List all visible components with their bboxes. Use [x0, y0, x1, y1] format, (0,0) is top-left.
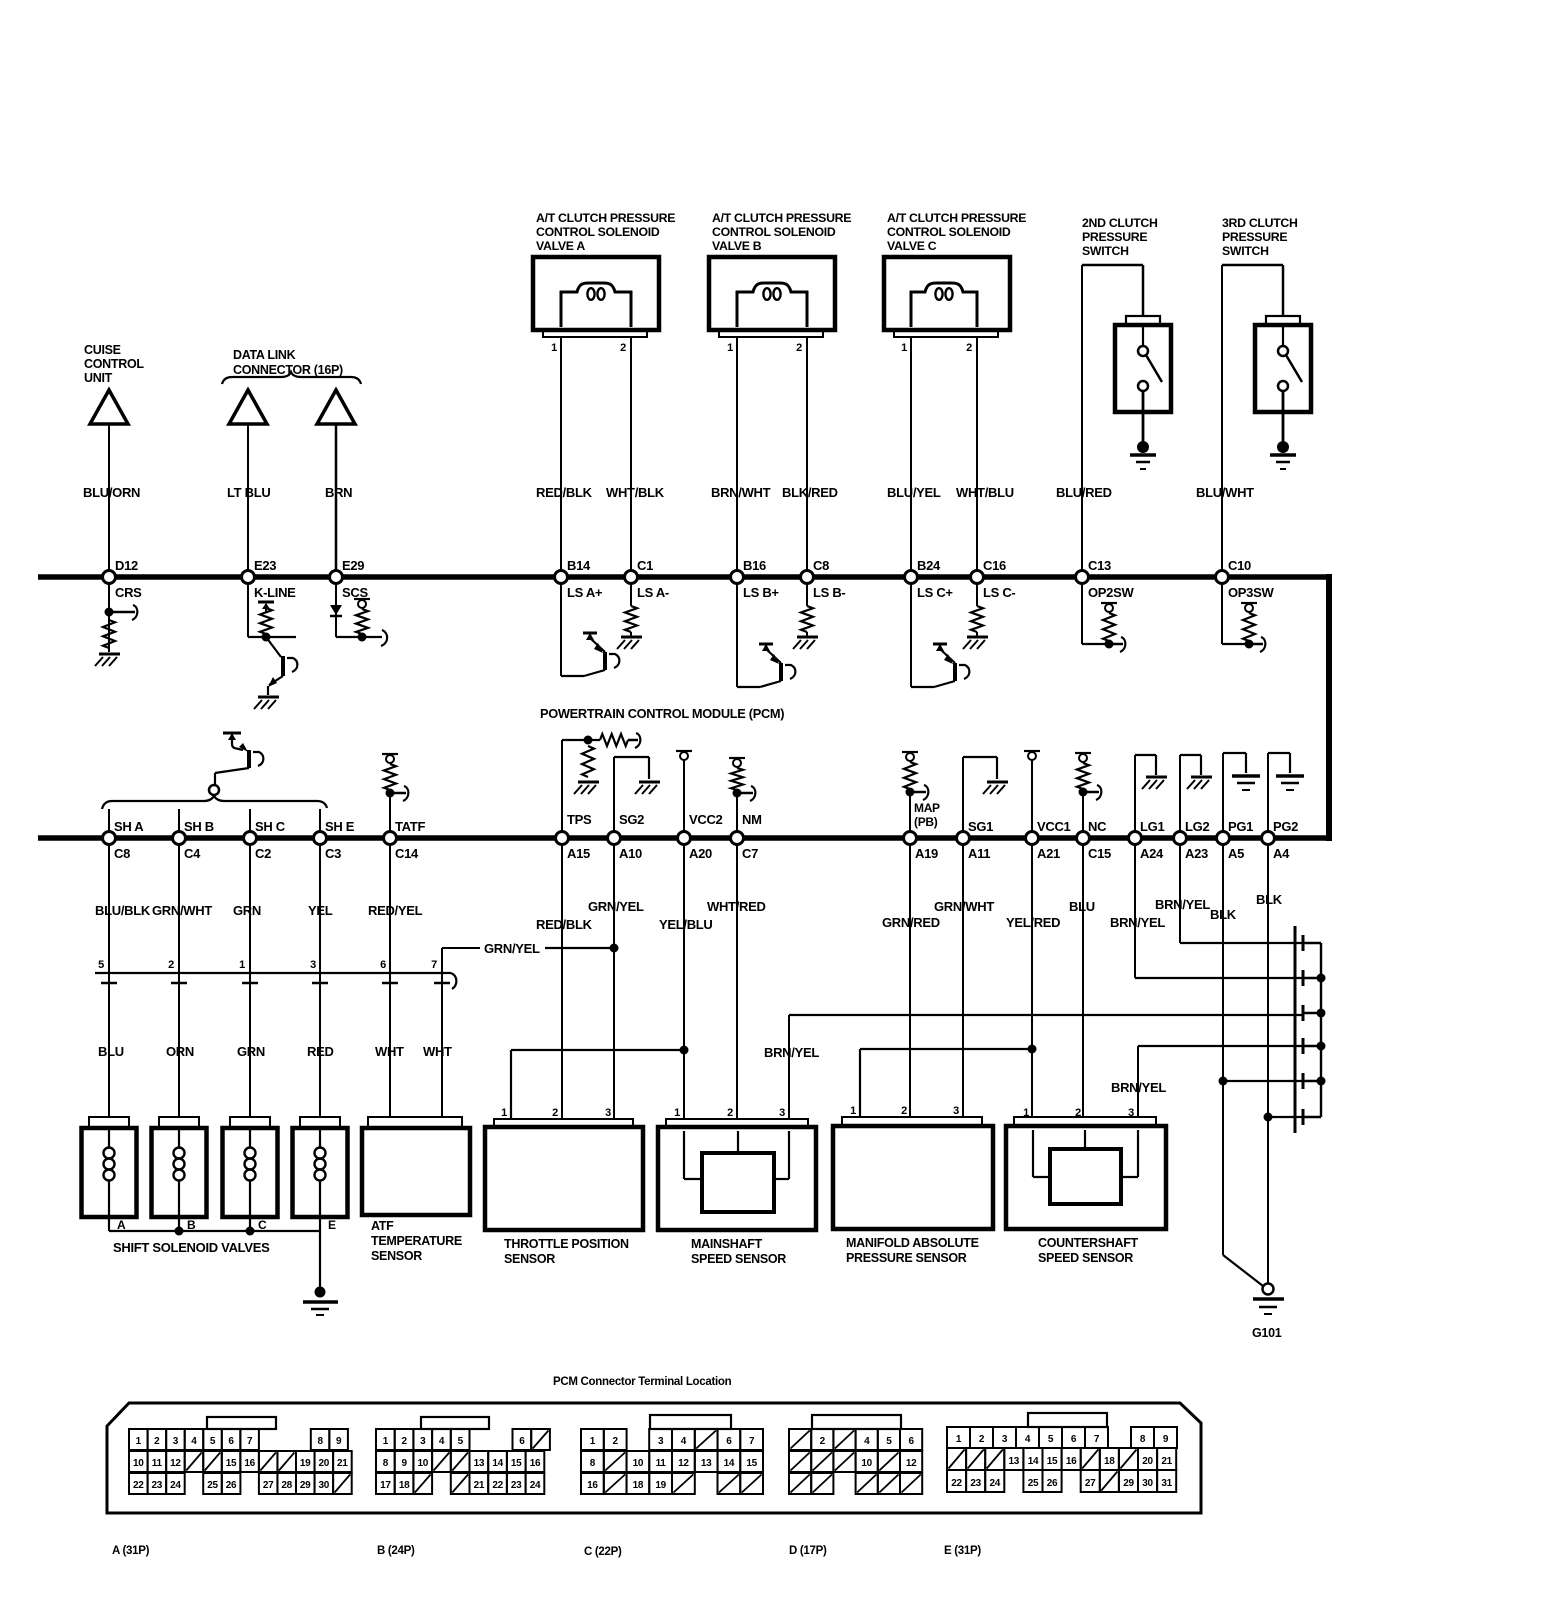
svg-text:4: 4	[864, 1436, 870, 1447]
node SH A (C8) on bus 2 with stub	[103, 809, 145, 861]
node TPS (A15) on bus 2	[556, 812, 593, 861]
svg-text:SH C: SH C	[255, 819, 286, 834]
svg-text:C (22P): C (22P)	[584, 1546, 622, 1558]
label ATF TEMPERATURE SENSOR	[371, 1219, 462, 1263]
pin number 1	[239, 959, 245, 971]
wire BRN DLC to E29	[335, 424, 338, 577]
svg-text:1: 1	[551, 342, 557, 354]
transistor Q-lsa driver	[561, 633, 619, 676]
svg-text:2: 2	[552, 1107, 558, 1119]
svg-text:ATF: ATF	[371, 1219, 394, 1233]
wire WHT/BLU valve C pin2 to C16	[976, 337, 978, 577]
svg-text:7: 7	[1094, 1434, 1100, 1445]
svg-text:BRN/YEL: BRN/YEL	[1155, 897, 1210, 912]
svg-text:SHIFT SOLENOID VALVES: SHIFT SOLENOID VALVES	[113, 1240, 270, 1255]
node E29 (SCS) on PCM bus 1	[330, 558, 369, 600]
svg-text:TPS: TPS	[567, 812, 592, 827]
svg-text:3: 3	[779, 1107, 785, 1119]
svg-text:CONTROL SOLENOID: CONTROL SOLENOID	[536, 225, 660, 239]
svg-text:THROTTLE POSITION: THROTTLE POSITION	[504, 1237, 629, 1251]
wire BRN/YEL mainshaft pin3 to joint connector	[789, 1015, 1302, 1119]
svg-text:6: 6	[380, 959, 386, 971]
node VCC2 (A20) on bus 2	[678, 812, 723, 861]
label D (17P)	[789, 1545, 827, 1557]
svg-text:8: 8	[590, 1458, 596, 1469]
node SG1 (A11) on bus 2	[957, 819, 994, 861]
svg-text:1: 1	[727, 342, 733, 354]
svg-text:A19: A19	[915, 846, 938, 861]
svg-text:GRN/WHT: GRN/WHT	[152, 903, 212, 918]
label BLU/BLK	[95, 903, 151, 918]
wire BLK A5 to joint connector and G101	[1219, 844, 1303, 1286]
LS A+ output wire	[560, 584, 562, 676]
cruise control unit label	[84, 343, 144, 385]
svg-text:14: 14	[492, 1458, 503, 1469]
svg-text:A (31P): A (31P)	[112, 1545, 150, 1557]
wire GRN/RED A19 to MAP pin2	[909, 844, 911, 1117]
label MAINSHAFT SPEED SENSOR	[691, 1237, 786, 1266]
svg-text:SCS: SCS	[342, 585, 368, 600]
svg-text:NM: NM	[742, 812, 762, 827]
svg-text:22: 22	[951, 1478, 962, 1489]
svg-text:A/T CLUTCH PRESSURE: A/T CLUTCH PRESSURE	[712, 211, 851, 225]
svg-text:3: 3	[1002, 1434, 1008, 1445]
ground (rake) LG2	[1187, 777, 1212, 789]
wire BLU/RED 2nd clutch switch to C13	[1082, 265, 1143, 577]
LS C+ output wire	[910, 584, 912, 687]
A/T clutch pressure control solenoid valve C label	[887, 211, 1026, 253]
resistor R-kline pull-up	[260, 608, 272, 634]
wire RED/BLK valve A pin1 to B14	[560, 337, 562, 577]
svg-text:LS A-: LS A-	[637, 585, 669, 600]
node SH C (C2) on bus 2 with stub	[244, 809, 286, 861]
svg-text:LS C+: LS C+	[917, 585, 953, 600]
svg-text:1: 1	[239, 959, 245, 971]
svg-text:2: 2	[154, 1436, 160, 1447]
resistor R-tps series	[588, 733, 640, 748]
node LG2 (A23) on bus 2	[1174, 819, 1210, 861]
countershaft speed sensor box	[1006, 1107, 1166, 1229]
svg-text:5: 5	[1048, 1434, 1054, 1445]
svg-text:YEL: YEL	[308, 903, 333, 918]
svg-text:30: 30	[319, 1480, 330, 1491]
PG2 wire to ground	[1268, 753, 1290, 838]
svg-text:E (31P): E (31P)	[944, 1545, 981, 1557]
node SH E (C3) on bus 2 with stub	[314, 809, 355, 861]
transistor Q-shift (shift solenoid driver)	[215, 733, 263, 785]
resistor R-op3 pull-up	[1241, 603, 1257, 641]
svg-text:5: 5	[886, 1436, 892, 1447]
svg-text:2: 2	[901, 1105, 907, 1117]
label GRN/YEL (2)	[588, 899, 644, 914]
svg-text:COUNTERSHAFT: COUNTERSHAFT	[1038, 1236, 1139, 1250]
svg-text:8: 8	[1140, 1434, 1146, 1445]
hook OP2SW	[1109, 637, 1125, 652]
label WHT/BLK	[606, 485, 665, 500]
resistor R-crs	[103, 620, 115, 648]
resistor R-lsc	[971, 606, 983, 632]
wire YEL/BLU A20 to TPS pin1 and mainshaft pin1	[511, 844, 689, 1119]
ground (rake) SG1	[983, 782, 1008, 794]
svg-text:BLK: BLK	[1256, 892, 1283, 907]
svg-text:15: 15	[1047, 1456, 1058, 1467]
node LG1 (A24) on bus 2	[1129, 819, 1165, 861]
label MANIFOLD ABSOLUTE PRESSURE SENSOR	[846, 1236, 979, 1265]
svg-text:VALVE A: VALVE A	[536, 239, 585, 253]
svg-text:POWERTRAIN CONTROL MODULE (PCM: POWERTRAIN CONTROL MODULE (PCM)	[540, 706, 784, 721]
pin number 3	[310, 959, 316, 971]
shift solenoid valve B	[152, 1117, 207, 1232]
pin number 5	[98, 959, 104, 971]
svg-text:CRS: CRS	[115, 585, 142, 600]
LS B- wire	[806, 584, 808, 637]
label BRN	[325, 485, 352, 500]
pin number 7	[431, 959, 437, 971]
svg-text:VCC1: VCC1	[1037, 819, 1071, 834]
svg-text:4: 4	[439, 1436, 445, 1447]
svg-text:MAINSHAFT: MAINSHAFT	[691, 1237, 763, 1251]
ground (earth) PG1	[1232, 776, 1260, 790]
svg-text:C7: C7	[742, 846, 758, 861]
svg-text:11: 11	[152, 1458, 163, 1469]
svg-text:GRN/YEL: GRN/YEL	[484, 941, 540, 956]
svg-text:LT BLU: LT BLU	[227, 485, 270, 500]
svg-text:BLU/BLK: BLU/BLK	[95, 903, 151, 918]
svg-text:18: 18	[633, 1480, 644, 1491]
node SH B (C4) on bus 2 with stub	[173, 809, 214, 861]
svg-text:TATF: TATF	[395, 819, 425, 834]
svg-text:1: 1	[136, 1436, 142, 1447]
svg-text:A/T CLUTCH PRESSURE: A/T CLUTCH PRESSURE	[887, 211, 1026, 225]
wire BRN/YEL A24 to joint connector	[1135, 844, 1302, 978]
resistor R-nc pull-up	[1075, 753, 1091, 797]
svg-text:C8: C8	[114, 846, 130, 861]
svg-text:10: 10	[633, 1458, 644, 1469]
node C13 (OP2SW) on PCM bus 1	[1076, 558, 1135, 600]
svg-text:23: 23	[152, 1480, 163, 1491]
svg-text:A/T CLUTCH PRESSURE: A/T CLUTCH PRESSURE	[536, 211, 675, 225]
wire BLU/ORN cruise control to D12	[108, 424, 110, 577]
svg-text:GRN: GRN	[233, 903, 261, 918]
svg-text:2: 2	[979, 1434, 985, 1445]
svg-text:K-LINE: K-LINE	[254, 585, 296, 600]
wire WHT/BLK valve A pin2 to C1	[630, 337, 632, 577]
node E23 (K-LINE) on PCM bus 1	[242, 558, 297, 600]
svg-text:B (24P): B (24P)	[377, 1545, 415, 1557]
svg-text:5: 5	[458, 1436, 464, 1447]
wire YEL/RED A21 to countershaft pin1 and MAP pin1	[860, 844, 1037, 1117]
svg-text:3: 3	[310, 959, 316, 971]
svg-text:11: 11	[656, 1458, 667, 1469]
wire GRN/YEL A10 to TPS pin3	[613, 844, 615, 1119]
hook OP3SW	[1249, 637, 1265, 652]
wire BLU C15 to countershaft pin2	[1082, 844, 1084, 1117]
svg-text:3: 3	[1128, 1107, 1134, 1119]
ATF temperature sensor box	[362, 1117, 470, 1215]
svg-text:6: 6	[519, 1436, 525, 1447]
label BLK/RED	[782, 485, 838, 500]
svg-text:28: 28	[281, 1480, 292, 1491]
label BRN/YEL (A23)	[1155, 897, 1210, 912]
SG1 wire to ground	[963, 757, 997, 838]
wire PCM boundary bus 1 (upper pin row of PCM)	[38, 574, 1329, 580]
svg-text:9: 9	[336, 1436, 342, 1447]
shift solenoid valve C	[223, 1117, 278, 1232]
label SHIFT SOLENOID VALVES	[113, 1240, 270, 1255]
svg-text:OP2SW: OP2SW	[1088, 585, 1134, 600]
brace over SH A..SH E	[102, 796, 327, 809]
PCM connector panel outline	[107, 1403, 1201, 1513]
svg-text:2ND CLUTCH: 2ND CLUTCH	[1082, 216, 1158, 230]
svg-text:WHT: WHT	[375, 1044, 404, 1059]
TATF wire above C14	[389, 796, 391, 838]
solenoid valve C body	[884, 257, 1010, 354]
ground (rake) LS B-	[793, 637, 818, 649]
svg-text:7: 7	[247, 1436, 253, 1447]
svg-text:SENSOR: SENSOR	[504, 1252, 555, 1266]
node NC (C15) on bus 2	[1077, 819, 1112, 861]
SG2 wire to ground	[614, 757, 649, 838]
svg-text:PRESSURE: PRESSURE	[1222, 230, 1287, 244]
svg-text:A11: A11	[968, 846, 990, 861]
svg-text:OP3SW: OP3SW	[1228, 585, 1274, 600]
node NM (C7) on bus 2	[731, 812, 762, 861]
svg-text:LS C-: LS C-	[983, 585, 1015, 600]
svg-text:BLU/ORN: BLU/ORN	[83, 485, 140, 500]
manifold absolute pressure sensor box	[833, 1105, 993, 1229]
2nd clutch pressure switch label	[1082, 216, 1158, 258]
data link connector label	[233, 348, 343, 377]
svg-text:21: 21	[1161, 1456, 1172, 1467]
label BLK (A4)	[1256, 892, 1283, 907]
LG2 wire to ground	[1180, 755, 1201, 838]
svg-text:29: 29	[1123, 1478, 1134, 1489]
svg-text:21: 21	[337, 1458, 348, 1469]
svg-text:1: 1	[383, 1436, 389, 1447]
K-LINE wire below E23	[248, 584, 296, 642]
svg-text:2: 2	[168, 959, 174, 971]
svg-text:6: 6	[726, 1436, 732, 1447]
wire LT BLU DLC to E23	[247, 424, 249, 577]
svg-text:6: 6	[908, 1436, 914, 1447]
svg-text:RED: RED	[307, 1044, 334, 1059]
svg-text:3: 3	[173, 1436, 179, 1447]
ground (rake) LS A-	[617, 637, 642, 649]
svg-text:C1: C1	[637, 558, 653, 573]
svg-text:12: 12	[170, 1458, 181, 1469]
label E (31P)	[944, 1545, 981, 1557]
svg-text:DATA LINK: DATA LINK	[233, 348, 296, 362]
svg-text:12: 12	[906, 1458, 917, 1469]
ground (earth) PG2	[1276, 776, 1304, 790]
svg-text:A15: A15	[567, 846, 590, 861]
svg-text:E23: E23	[254, 558, 276, 573]
label WHT (2)	[423, 1044, 452, 1059]
ground (rake) LS C-	[963, 637, 988, 649]
wire GRN/WHT A11 to MAP pin3	[962, 844, 964, 1117]
node B24 (LS C+) on PCM bus 1	[905, 558, 954, 600]
svg-text:23: 23	[511, 1480, 522, 1491]
3rd clutch pressure switch	[1255, 316, 1311, 469]
ground G101	[1253, 1284, 1284, 1315]
svg-text:WHT: WHT	[423, 1044, 452, 1059]
svg-text:4: 4	[681, 1436, 687, 1447]
svg-text:LS B-: LS B-	[813, 585, 845, 600]
wire BLU/YEL valve C pin1 to B24	[910, 337, 912, 577]
resistor R-nm pull-up	[729, 758, 745, 798]
wire PCM boundary right edge	[1326, 574, 1332, 841]
svg-text:TEMPERATURE: TEMPERATURE	[371, 1234, 462, 1248]
svg-text:30: 30	[1142, 1478, 1153, 1489]
svg-text:WHT/BLK: WHT/BLK	[606, 485, 665, 500]
LG1 wire to ground	[1135, 755, 1156, 838]
2nd clutch pressure switch	[1115, 316, 1171, 469]
svg-text:7: 7	[749, 1436, 755, 1447]
wire GRN C2 to solenoid C	[249, 844, 251, 1117]
svg-text:A24: A24	[1140, 846, 1164, 861]
svg-text:9: 9	[1163, 1434, 1169, 1445]
throttle position sensor box	[485, 1107, 643, 1230]
svg-text:GRN: GRN	[237, 1044, 265, 1059]
node C1 (LS A-) on PCM bus 1	[625, 558, 669, 600]
svg-text:2: 2	[401, 1436, 407, 1447]
svg-text:SH B: SH B	[184, 819, 214, 834]
transistor Q-lsb driver	[737, 644, 795, 687]
resistor R-lsb	[801, 606, 813, 632]
label BRN/YEL (countershaft)	[1111, 1080, 1166, 1095]
svg-text:14: 14	[724, 1458, 735, 1469]
svg-text:2: 2	[966, 342, 972, 354]
wire PCM boundary bus 2 (lower pin row of PCM)	[38, 835, 1329, 841]
label GRN	[233, 903, 261, 918]
svg-text:18: 18	[1104, 1456, 1115, 1467]
svg-text:PG2: PG2	[1273, 819, 1298, 834]
wire YEL C3 to solenoid E	[319, 844, 321, 1117]
svg-text:CUISE: CUISE	[84, 343, 121, 357]
label RED/YEL	[368, 903, 423, 918]
svg-text:BRN/YEL: BRN/YEL	[764, 1045, 819, 1060]
svg-text:SPEED SENSOR: SPEED SENSOR	[1038, 1251, 1133, 1265]
brace data link connector	[222, 372, 361, 384]
svg-text:10: 10	[418, 1458, 429, 1469]
label BLU/YEL	[887, 485, 941, 500]
svg-text:CONTROL SOLENOID: CONTROL SOLENOID	[712, 225, 836, 239]
PCM connector D terminal grid	[789, 1415, 922, 1494]
wire WHT/RED C7 to mainshaft pin2	[736, 844, 738, 1119]
svg-text:8: 8	[383, 1458, 389, 1469]
transistor Q-kline	[266, 637, 297, 695]
node VCC1 (A21) on bus 2	[1026, 819, 1071, 861]
label GRN/YEL with branch line	[442, 941, 619, 956]
svg-text:1: 1	[590, 1436, 596, 1447]
svg-text:16: 16	[244, 1458, 255, 1469]
svg-text:21: 21	[474, 1480, 485, 1491]
svg-text:3: 3	[605, 1107, 611, 1119]
svg-text:LG2: LG2	[1185, 819, 1209, 834]
label BLU (countershaft)	[1069, 899, 1095, 914]
svg-text:8: 8	[317, 1436, 323, 1447]
node MAP (PB) (A19) on bus 2	[904, 801, 941, 861]
label PCM Connector Terminal Location	[553, 1376, 732, 1388]
svg-text:24: 24	[530, 1480, 541, 1491]
PCM connector B terminal grid	[376, 1417, 550, 1494]
svg-text:CONTROL: CONTROL	[84, 357, 144, 371]
svg-text:A20: A20	[689, 846, 712, 861]
svg-text:CONTROL SOLENOID: CONTROL SOLENOID	[887, 225, 1011, 239]
label YEL/RED	[1006, 915, 1060, 930]
svg-text:12: 12	[678, 1458, 689, 1469]
label BLU/ORN	[83, 485, 140, 500]
svg-text:LG1: LG1	[1140, 819, 1164, 834]
svg-text:13: 13	[1009, 1456, 1020, 1467]
svg-text:BLU/WHT: BLU/WHT	[1196, 485, 1254, 500]
connector triangle cruise control unit	[90, 390, 128, 424]
svg-text:1: 1	[674, 1107, 680, 1119]
LS B+ output wire	[736, 584, 738, 687]
node SG2 (A10) on bus 2	[608, 812, 645, 861]
svg-text:4: 4	[191, 1436, 197, 1447]
svg-text:C10: C10	[1228, 558, 1251, 573]
svg-text:PRESSURE SENSOR: PRESSURE SENSOR	[846, 1251, 967, 1265]
NC wire above C15	[1082, 796, 1084, 838]
label POWERTRAIN CONTROL MODULE (PCM)	[540, 706, 784, 721]
svg-text:19: 19	[655, 1480, 666, 1491]
svg-text:SPEED SENSOR: SPEED SENSOR	[691, 1252, 786, 1266]
svg-text:5: 5	[210, 1436, 216, 1447]
svg-text:1: 1	[901, 342, 907, 354]
svg-text:A21: A21	[1037, 846, 1060, 861]
svg-text:3RD CLUTCH: 3RD CLUTCH	[1222, 216, 1298, 230]
label RED	[307, 1044, 334, 1059]
pin number 6	[380, 959, 386, 971]
svg-text:BLK: BLK	[1210, 907, 1237, 922]
resistor R-map pull-up	[902, 752, 918, 797]
node PG1 (A5) on bus 2	[1217, 819, 1254, 861]
wire WHT (7) GRN/YEL branch to ATF sensor	[441, 948, 443, 1117]
svg-text:17: 17	[380, 1480, 391, 1491]
svg-text:BRN: BRN	[325, 485, 352, 500]
svg-text:C8: C8	[813, 558, 829, 573]
label B (24P)	[377, 1545, 415, 1557]
PCM connector C terminal grid	[581, 1415, 763, 1494]
node D12 (CRS) on PCM bus 1	[103, 558, 143, 600]
svg-text:SH E: SH E	[325, 819, 355, 834]
shift solenoid valve E	[293, 1117, 348, 1232]
svg-text:WHT/BLU: WHT/BLU	[956, 485, 1014, 500]
hook NC	[1083, 785, 1101, 800]
label GRN	[237, 1044, 265, 1059]
svg-text:B16: B16	[743, 558, 766, 573]
node B14 (LS A+) on PCM bus 1	[555, 558, 603, 600]
svg-text:6: 6	[228, 1436, 234, 1447]
svg-text:4: 4	[1025, 1434, 1031, 1445]
svg-text:SWITCH: SWITCH	[1082, 244, 1129, 258]
VCC1 internal terminal	[1024, 751, 1040, 838]
svg-text:2: 2	[796, 342, 802, 354]
svg-text:C13: C13	[1088, 558, 1111, 573]
ground (rake) SG2	[635, 782, 660, 794]
svg-text:29: 29	[300, 1480, 311, 1491]
svg-text:D12: D12	[115, 558, 138, 573]
node TATF (C14) on bus 2	[384, 819, 426, 861]
svg-text:15: 15	[511, 1458, 522, 1469]
svg-text:BRN/YEL: BRN/YEL	[1111, 1080, 1166, 1095]
svg-text:RED/BLK: RED/BLK	[536, 485, 593, 500]
label WHT	[375, 1044, 404, 1059]
svg-text:BLU: BLU	[98, 1044, 124, 1059]
svg-text:27: 27	[1085, 1478, 1096, 1489]
svg-text:13: 13	[474, 1458, 485, 1469]
